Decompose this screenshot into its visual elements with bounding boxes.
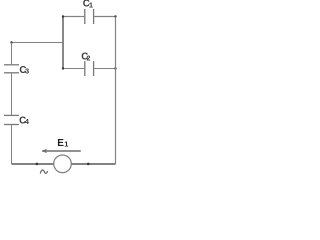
wire bottom branch right segment: [94, 68, 115, 70]
node bottom-left of parallel section: [62, 67, 64, 69]
node top-left of parallel section: [62, 15, 64, 17]
current arrow for E1: [42, 149, 81, 154]
node top-right corner: [114, 15, 116, 17]
svg-text:2: 2: [87, 55, 91, 62]
wire top branch left segment: [63, 16, 84, 18]
wire left rail middle: [11, 73, 13, 116]
svg-text:4: 4: [25, 117, 30, 126]
svg-text:3: 3: [25, 67, 29, 76]
wire left rail lower: [11, 125, 13, 165]
wire feed from left rail: [12, 42, 64, 44]
ac source E1 circle: [54, 155, 72, 173]
svg-text:E: E: [57, 138, 64, 149]
wire bottom branch left segment: [63, 68, 84, 70]
wire left rail upper: [11, 43, 13, 65]
capacitor C2: [85, 61, 94, 76]
node junction right rail: [114, 67, 116, 69]
capacitor C1: [85, 9, 94, 24]
svg-text:1: 1: [89, 1, 93, 10]
wire bottom left segment: [12, 163, 54, 165]
wire left bus vertical: [62, 17, 64, 69]
wire top branch right segment: [94, 16, 115, 18]
wire right rail: [115, 17, 117, 165]
wire bottom right segment: [71, 163, 115, 165]
node feed corner: [10, 41, 12, 43]
node source left pin: [36, 163, 39, 166]
capacitor C4: [4, 115, 19, 124]
svg-text:1: 1: [64, 140, 68, 149]
ac tilde symbol: [40, 170, 47, 174]
capacitor C3: [4, 65, 19, 73]
node source right pin: [87, 163, 90, 166]
